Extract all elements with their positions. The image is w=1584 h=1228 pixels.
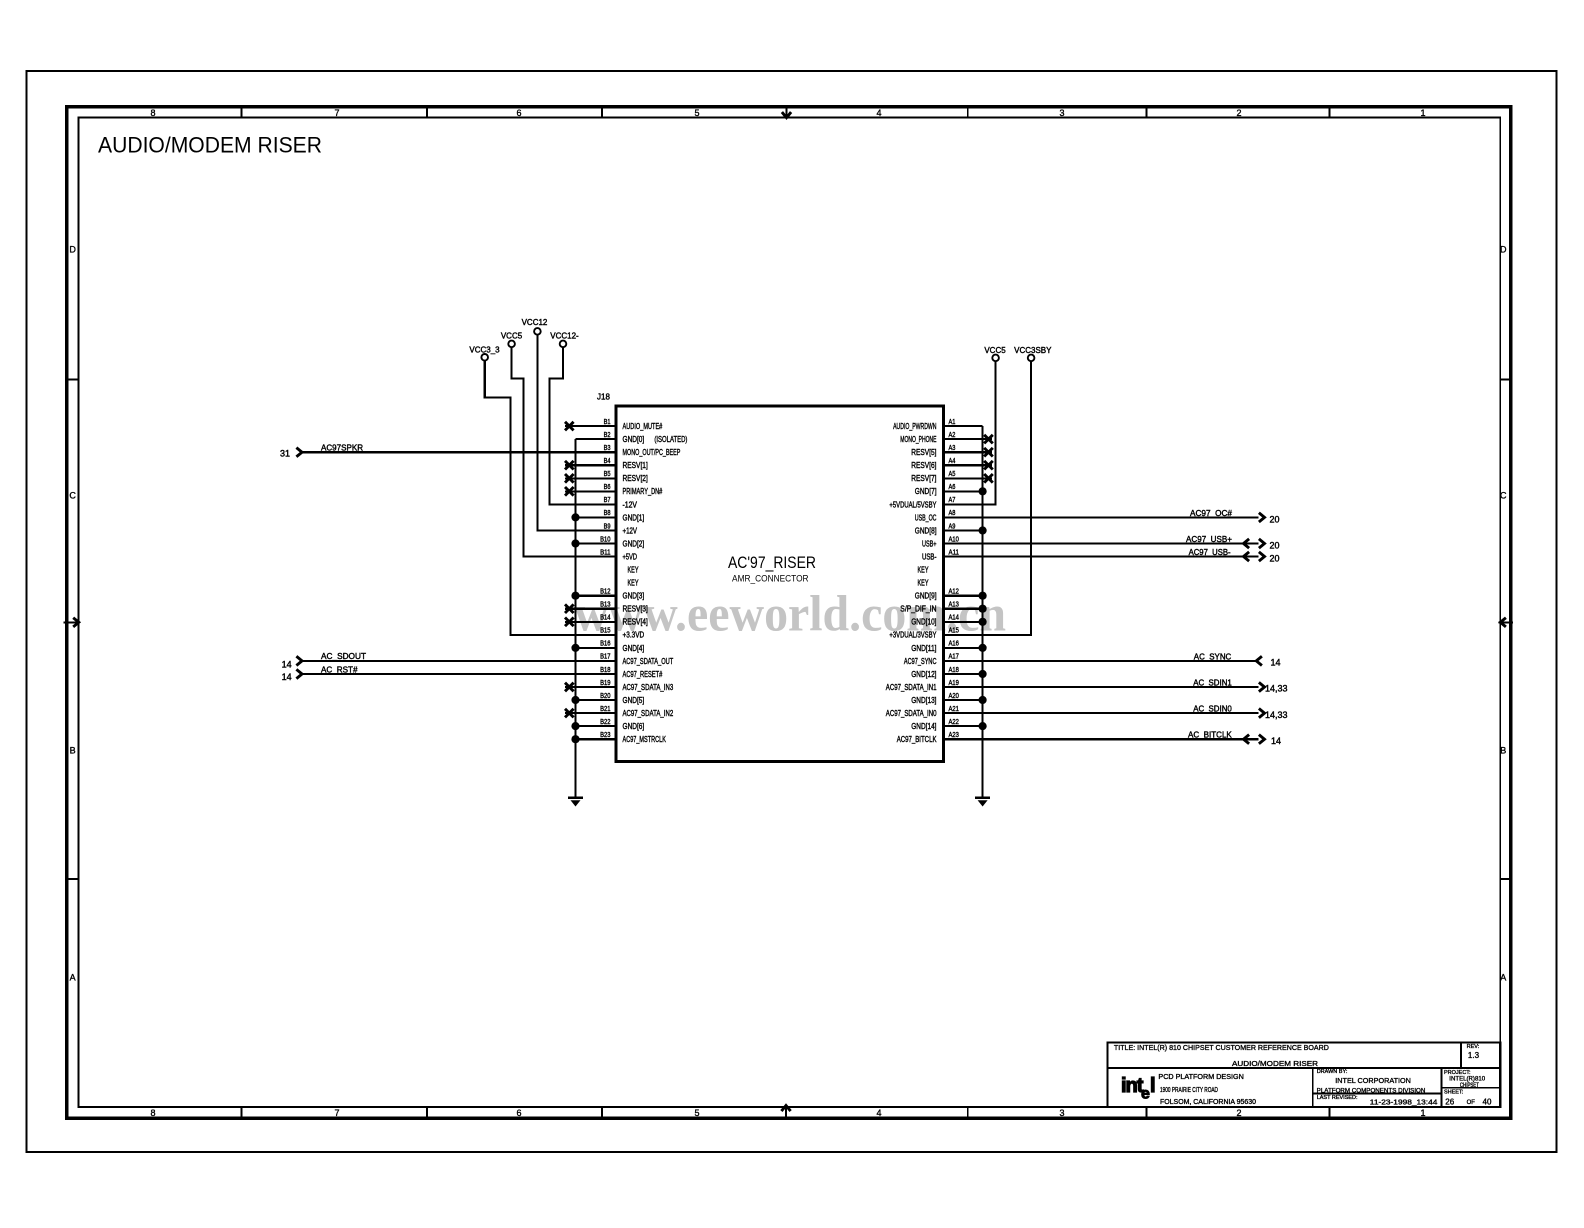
svg-text:INTEL CORPORATION: INTEL CORPORATION [1335,1076,1411,1085]
pin B9 +12V [537,529,616,531]
svg-text:GND[7]: GND[7] [915,487,937,496]
svg-text:GND[5]: GND[5] [623,696,645,705]
svg-text:VCC12: VCC12 [522,318,548,327]
svg-text:GND[9]: GND[9] [915,592,937,601]
svg-text:B: B [70,746,76,756]
svg-text:B12: B12 [600,589,610,596]
net AC_SYNC from pin A17 [942,660,1256,662]
svg-text:MONO_PHONE: MONO_PHONE [900,435,936,444]
ground symbol left [568,797,583,799]
svg-text:VCC3_3: VCC3_3 [469,345,500,354]
svg-text:B11: B11 [600,549,610,556]
svg-text:AC97_RESET#: AC97_RESET# [623,670,663,679]
svg-text:3: 3 [1059,1108,1064,1118]
svg-text:20: 20 [1270,514,1280,524]
svg-text:S/P_DIF_IN: S/P_DIF_IN [900,605,936,614]
net AC97_USB+ from pin A10 [942,542,1259,544]
pin A2 MONO_PHONE [942,438,992,440]
svg-text:KEY: KEY [918,579,929,588]
wire VCC12 to pin B9 [537,335,616,531]
pin B21 AC97_SDATA_IN2 [565,712,616,714]
svg-text:GND[13]: GND[13] [911,696,936,705]
svg-text:6: 6 [516,108,521,118]
svg-text:B16: B16 [600,641,610,648]
svg-text:PROJECT:: PROJECT: [1444,1070,1471,1076]
title block [1108,1043,1501,1107]
pin B19 AC97_SDATA_IN3 [565,686,616,688]
svg-text:RESV[1]: RESV[1] [623,461,648,470]
wire VCC12- to pin B7 [550,347,617,504]
svg-text:USB+: USB+ [922,539,937,548]
svg-text:C: C [69,491,76,501]
pin B12 GND[3] [576,595,617,597]
svg-text:1900 PRAIRIE CITY ROAD: 1900 PRAIRIE CITY ROAD [1160,1087,1218,1094]
svg-text:AC97_USB-: AC97_USB- [1189,548,1231,557]
svg-text:8: 8 [150,108,155,118]
svg-text:A23: A23 [949,732,959,739]
svg-text:4: 4 [876,1108,881,1118]
svg-text:A10: A10 [949,536,959,543]
svg-text:14,33: 14,33 [1265,684,1288,694]
net AC_SDIN1 from pin A19 [942,686,1259,688]
svg-text:B2: B2 [604,432,611,439]
pin B2 GND[0] [576,438,617,440]
svg-text:TITLE: INTEL(R) 810 CHIPSET CU: TITLE: INTEL(R) 810 CHIPSET CUSTOMER REF… [1114,1043,1330,1052]
svg-text:+5VDUAL/5VSBY: +5VDUAL/5VSBY [889,500,937,509]
svg-text:A12: A12 [949,589,959,596]
svg-text:REV:: REV: [1467,1044,1480,1050]
svg-text:14: 14 [1271,658,1281,668]
pin B13 RESV[3] [565,608,616,610]
svg-text:VCC5: VCC5 [501,332,523,341]
svg-text:AC97_SDATA_IN0: AC97_SDATA_IN0 [886,709,937,718]
svg-text:KEY: KEY [628,579,639,588]
svg-text:A18: A18 [949,667,959,674]
svg-text:RESV[6]: RESV[6] [911,461,936,470]
svg-text:PCD PLATFORM DESIGN: PCD PLATFORM DESIGN [1158,1074,1243,1081]
net AC_RST# to pin B18 [302,673,616,675]
svg-text:GND[0]: GND[0] [623,435,645,444]
pin B4 RESV[1] [565,464,616,466]
svg-text:B21: B21 [600,706,610,713]
svg-text:A15: A15 [949,628,959,635]
svg-text:20: 20 [1270,553,1280,563]
svg-text:5: 5 [694,108,699,118]
pin B10 GND[2] [576,542,617,544]
svg-text:B15: B15 [600,628,610,635]
svg-text:AC97_MSTRCLK: AC97_MSTRCLK [623,735,667,744]
svg-text:+12V: +12V [623,526,638,535]
svg-text:14,33: 14,33 [1265,710,1288,720]
svg-text:AC_RST#: AC_RST# [321,665,358,674]
pin B11 +5VD [523,555,616,557]
svg-text:A11: A11 [949,549,959,556]
svg-text:B6: B6 [604,484,611,491]
svg-text:AUDIO_PWRDWN: AUDIO_PWRDWN [893,422,937,431]
svg-text:l: l [1150,1075,1156,1097]
svg-text:1.3: 1.3 [1468,1051,1480,1060]
svg-text:AC_SDOUT: AC_SDOUT [321,652,366,661]
svg-text:SHEET:: SHEET: [1444,1090,1464,1096]
svg-text:A13: A13 [949,602,959,609]
svg-text:8: 8 [150,1108,155,1118]
svg-text:AC_SYNC: AC_SYNC [1194,652,1232,661]
svg-text:OF: OF [1467,1100,1476,1106]
net AC97_OC# from pin A8 [942,516,1259,518]
pin A20 GND[13] [942,699,983,701]
svg-text:INTEL(R)810: INTEL(R)810 [1449,1076,1485,1082]
svg-text:A21: A21 [949,706,959,713]
svg-text:GND[10]: GND[10] [911,618,936,627]
svg-text:PLATFORM COMPONENTS DIVISION: PLATFORM COMPONENTS DIVISION [1317,1088,1426,1094]
svg-text:MONO_OUT/PC_BEEP: MONO_OUT/PC_BEEP [623,448,681,457]
svg-text:A16: A16 [949,641,959,648]
svg-text:A9: A9 [949,523,956,530]
svg-text:GND[14]: GND[14] [911,722,936,731]
pin B5 RESV[2] [565,477,616,479]
svg-text:GND[1]: GND[1] [623,513,645,522]
svg-text:DRAWN BY:: DRAWN BY: [1317,1069,1348,1075]
svg-text:KEY: KEY [918,566,929,575]
svg-text:14: 14 [282,660,292,670]
svg-text:AUDIO_MUTE#: AUDIO_MUTE# [623,422,663,431]
pin A4 RESV[6] [942,464,992,466]
svg-text:A14: A14 [949,615,959,622]
wire VCC5 to pin B11 [512,347,616,556]
wire right ground bus [981,426,983,798]
pin B15 +3.3VD [510,634,616,636]
pin A14 GND[10] [942,621,983,623]
net AC_SDIN0 from pin A21 [942,712,1259,714]
svg-text:RESV[5]: RESV[5] [911,448,936,457]
svg-text:AC'97_RISER: AC'97_RISER [728,553,816,572]
svg-text:FOLSOM, CALIFORNIA 95630: FOLSOM, CALIFORNIA 95630 [1160,1099,1256,1106]
pin A15 +3VDUAL/3VSBY [942,634,1031,636]
pin A5 RESV[7] [942,477,992,479]
pin B22 GND[6] [576,725,617,727]
svg-text:+5VD: +5VD [623,552,638,561]
svg-text:LAST REVISED:: LAST REVISED: [1317,1095,1358,1101]
connector J18 AC97_RISER AMR_CONNECTOR body [616,406,944,762]
svg-text:GND[6]: GND[6] [623,722,645,731]
svg-text:C: C [1500,491,1507,501]
svg-text:A2: A2 [949,432,956,439]
svg-text:AC_BITCLK: AC_BITCLK [1188,731,1232,740]
svg-text:AC97_BITCLK: AC97_BITCLK [897,735,937,744]
svg-text:GND[2]: GND[2] [623,539,645,548]
pin B1 AUDIO_MUTE# [565,425,616,427]
svg-text:GND[4]: GND[4] [623,644,645,653]
svg-text:B10: B10 [600,536,610,543]
svg-text:RESV[2]: RESV[2] [623,474,648,483]
svg-text:A4: A4 [949,458,956,465]
svg-text:B13: B13 [600,602,610,609]
svg-text:B14: B14 [600,615,610,622]
svg-text:20: 20 [1270,540,1280,550]
net AC_BITCLK from pin A23 [942,738,1259,740]
svg-text:B8: B8 [604,510,611,517]
svg-text:26: 26 [1445,1097,1454,1106]
svg-text:VCC12-: VCC12- [550,332,579,341]
pin A13 S/P_DIF_IN [942,608,983,610]
svg-text:31: 31 [280,449,290,459]
svg-text:VCC5: VCC5 [984,346,1006,355]
net AC97_USB- from pin A11 [942,555,1259,557]
svg-text:AMR_CONNECTOR: AMR_CONNECTOR [732,574,809,585]
svg-text:GND[12]: GND[12] [911,670,936,679]
svg-text:CHIPSET: CHIPSET [1460,1083,1479,1089]
svg-text:B22: B22 [600,719,610,726]
svg-text:VCC3SBY: VCC3SBY [1014,346,1052,355]
svg-text:B20: B20 [600,693,610,700]
svg-text:B23: B23 [600,732,610,739]
svg-text:AC97_SDATA_OUT: AC97_SDATA_OUT [623,657,674,666]
svg-text:RESV[3]: RESV[3] [623,605,648,614]
svg-text:B3: B3 [604,445,611,452]
pin A7 +5VDUAL/5VSBY [942,503,996,505]
svg-text:J18: J18 [597,393,610,402]
svg-text:B5: B5 [604,471,611,478]
svg-text:40: 40 [1483,1097,1492,1106]
pin B20 GND[5] [576,699,617,701]
svg-text:GND[3]: GND[3] [623,592,645,601]
svg-text:14: 14 [1271,736,1281,746]
svg-text:(ISOLATED): (ISOLATED) [654,435,687,444]
svg-text:A6: A6 [949,484,956,491]
svg-text:A19: A19 [949,680,959,687]
svg-text:D: D [69,245,76,255]
svg-text:AC97SPKR: AC97SPKR [321,443,363,452]
net AC_SDOUT to pin B17 [302,660,616,662]
svg-text:B7: B7 [604,497,611,504]
svg-text:A: A [1500,973,1506,983]
svg-text:+3.3VD: +3.3VD [623,631,645,640]
pin B23 AC97_MSTRCLK [576,738,617,740]
svg-text:B17: B17 [600,654,610,661]
svg-text:6: 6 [516,1108,521,1118]
svg-text:USB_OC: USB_OC [915,513,937,522]
svg-text:D: D [1500,245,1507,255]
svg-text:AC_SDIN0: AC_SDIN0 [1193,705,1232,714]
svg-text:B4: B4 [604,458,611,465]
pin B7 -12V [550,503,617,505]
svg-text:1: 1 [1420,108,1425,118]
svg-text:A: A [70,973,76,983]
svg-text:4: 4 [876,108,881,118]
svg-text:7: 7 [334,108,339,118]
pin A9 GND[8] [942,529,983,531]
svg-text:2: 2 [1236,1108,1241,1118]
svg-text:1: 1 [1420,1108,1425,1118]
svg-text:3: 3 [1059,108,1064,118]
pin A6 GND[7] [942,490,983,492]
svg-text:A5: A5 [949,471,956,478]
net AC97SPKR to pin B3 [302,451,616,453]
svg-text:AC97_SYNC: AC97_SYNC [904,657,937,666]
svg-text:AC97_USB+: AC97_USB+ [1186,535,1232,544]
svg-text:A22: A22 [949,719,959,726]
svg-text:AC_SDIN1: AC_SDIN1 [1193,679,1232,688]
svg-text:5: 5 [694,1108,699,1118]
svg-text:RESV[7]: RESV[7] [911,474,936,483]
pin A16 GND[11] [942,647,983,649]
svg-text:AUDIO/MODEM RISER: AUDIO/MODEM RISER [1232,1059,1319,1068]
svg-text:e: e [1141,1086,1150,1103]
pin B16 GND[4] [576,647,617,649]
svg-text:GND[8]: GND[8] [915,526,937,535]
svg-text:B9: B9 [604,523,611,530]
pin A22 GND[14] [942,725,983,727]
pin A18 GND[12] [942,673,983,675]
svg-text:7: 7 [334,1108,339,1118]
svg-text:GND[11]: GND[11] [911,644,936,653]
svg-text:B19: B19 [600,680,610,687]
svg-text:AC97_OC#: AC97_OC# [1190,509,1233,518]
pin A3 RESV[5] [942,451,992,453]
svg-text:A7: A7 [949,497,956,504]
wire left ground bus [574,439,576,798]
svg-text:A3: A3 [949,445,956,452]
svg-text:B1: B1 [604,419,611,426]
svg-text:A8: A8 [949,510,956,517]
pin B6 PRIMARY_DN# [565,490,616,492]
svg-text:14: 14 [282,672,292,682]
svg-text:PRIMARY_DN#: PRIMARY_DN# [623,487,663,496]
pin B14 RESV[4] [565,621,616,623]
wire VCC3_3 to pin B15 [485,361,616,635]
pin A1 AUDIO_PWRDWN [942,425,983,427]
svg-text:A1: A1 [949,419,956,426]
svg-text:+3VDUAL/3VSBY: +3VDUAL/3VSBY [889,631,937,640]
svg-text:KEY: KEY [628,566,639,575]
intel logo [1121,1075,1156,1103]
svg-text:A17: A17 [949,654,959,661]
svg-text:B: B [1500,746,1506,756]
svg-text:AC97_SDATA_IN3: AC97_SDATA_IN3 [623,683,674,692]
svg-text:AC97_SDATA_IN1: AC97_SDATA_IN1 [886,683,937,692]
svg-text:11-23-1998_13:44: 11-23-1998_13:44 [1370,1097,1438,1106]
pin A12 GND[9] [942,595,983,597]
wire VCC3SBY to pin A15 [942,361,1031,635]
ground symbol right [975,797,990,799]
svg-text:USB-: USB- [922,552,937,561]
svg-text:2: 2 [1236,108,1241,118]
wire VCC5 to pin A7 [942,361,996,504]
svg-text:A20: A20 [949,693,959,700]
svg-text:-12V: -12V [623,500,638,509]
svg-text:B18: B18 [600,667,610,674]
svg-text:RESV[4]: RESV[4] [623,618,648,627]
svg-text:AC97_SDATA_IN2: AC97_SDATA_IN2 [623,709,674,718]
pin B8 GND[1] [576,516,617,518]
svg-text:AUDIO/MODEM RISER: AUDIO/MODEM RISER [98,133,322,158]
